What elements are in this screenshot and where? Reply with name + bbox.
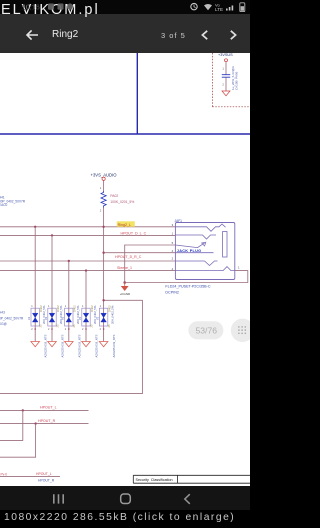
svg-text:+KGND: +KGND bbox=[120, 292, 131, 296]
svg-text:PA02: PA02 bbox=[110, 194, 118, 198]
ground KGND arrow bbox=[122, 283, 128, 291]
back icon bbox=[185, 494, 190, 504]
toolbar title bbox=[52, 29, 78, 40]
resistor PA02 zigzag bbox=[101, 191, 106, 208]
TVS diode DZ3 bbox=[61, 305, 82, 358]
home icon bbox=[121, 494, 131, 504]
jack sleeve barrel bbox=[223, 232, 227, 258]
capacitor PA06 plates bbox=[222, 75, 230, 78]
wire bbox=[225, 62, 227, 74]
TVS diode DZ1 bbox=[27, 305, 48, 358]
wire diode4 drop bbox=[85, 271, 87, 309]
svg-text:+3VS_AUDIO: +3VS_AUDIO bbox=[91, 172, 118, 177]
wire net HPOUT_D_L_C bbox=[0, 234, 175, 236]
wire ring2 stub to jack pin4 bbox=[104, 252, 176, 254]
page number pill bbox=[188, 321, 223, 339]
svg-text:HPOUT_L: HPOUT_L bbox=[40, 406, 57, 410]
svg-text:100K_0201_5%: 100K_0201_5% bbox=[110, 200, 134, 204]
jack pin1 contact bbox=[175, 235, 216, 239]
nav bar icons bbox=[0, 486, 250, 510]
svg-text:Sleeve_1: Sleeve_1 bbox=[117, 266, 132, 270]
power node circle bbox=[102, 177, 105, 180]
dashed hierarchy box bbox=[212, 53, 250, 107]
battery icon bbox=[240, 3, 245, 12]
bottom edge wire bbox=[0, 476, 60, 478]
junction bbox=[34, 422, 36, 424]
wire jack pin5 to KGND rail bbox=[125, 245, 176, 283]
jack JAF1 body bbox=[175, 223, 234, 280]
schematic page bbox=[0, 53, 250, 486]
svg-text:8P_0402_50V7R: 8P_0402_50V7R bbox=[0, 317, 24, 321]
junction bbox=[34, 226, 36, 228]
junction bbox=[22, 409, 24, 411]
junction bbox=[102, 252, 104, 254]
nav bar background bbox=[0, 486, 250, 510]
wire net HPOUT_R bbox=[0, 423, 89, 425]
jack tip arrow bbox=[202, 242, 206, 246]
status bar background bbox=[0, 0, 250, 14]
svg-text:HPOUT_D_R_C: HPOUT_D_R_C bbox=[115, 255, 142, 259]
watermark bbox=[1, 2, 100, 18]
notification icons bbox=[48, 4, 54, 10]
junction bbox=[68, 260, 70, 262]
blue sheet vertical line bbox=[136, 53, 138, 134]
wire net HPOUT_L bbox=[0, 409, 89, 411]
wire bbox=[225, 77, 227, 91]
svg-text:10:16: 10:16 bbox=[22, 3, 40, 12]
svg-text:Pv-0: Pv-0 bbox=[1, 473, 8, 477]
svg-text:HPOUT_R: HPOUT_R bbox=[38, 479, 55, 483]
jack pin sleeve contact bbox=[175, 267, 234, 271]
svg-text:Ring2_L: Ring2_L bbox=[118, 223, 131, 227]
wire diode1 drop bbox=[34, 227, 36, 308]
TVS diode DZ4 bbox=[78, 305, 99, 358]
left clipped capacitor label lower bbox=[0, 310, 24, 325]
junction bbox=[102, 299, 104, 301]
wire diode2 drop bbox=[51, 235, 53, 308]
status content over watermark bbox=[0, 0, 250, 14]
net label Ring2_L bbox=[117, 221, 135, 227]
blue sheet horizontal line bbox=[0, 133, 250, 135]
svg-text:HPOUT_R: HPOUT_R bbox=[38, 419, 56, 423]
wire KGND rail to jack sleeve pin bbox=[125, 271, 248, 283]
wire net Ring2_L bbox=[0, 226, 175, 228]
svg-text:DCPIN2: DCPIN2 bbox=[165, 290, 179, 294]
svg-text:KG@: KG@ bbox=[0, 322, 7, 326]
svg-text:53/76: 53/76 bbox=[196, 325, 218, 335]
jack pin3 contact bbox=[175, 224, 225, 231]
recents icon bbox=[54, 494, 63, 503]
page background bbox=[0, 53, 250, 486]
svg-text:HPOUT_L: HPOUT_L bbox=[36, 472, 52, 476]
notification icon overlays bbox=[48, 4, 54, 10]
junction bbox=[102, 226, 104, 228]
toolbar background bbox=[0, 14, 250, 53]
wire HPOUT_L hook bbox=[0, 410, 23, 440]
wire net HPOUT_D_R_C bbox=[0, 260, 175, 262]
page chevron right bbox=[231, 31, 236, 39]
status bar contents bbox=[0, 0, 250, 14]
alarm icon bbox=[191, 3, 197, 9]
svg-text:JACK PLUG: JACK PLUG bbox=[177, 249, 202, 253]
svg-text:+3VSUS: +3VSUS bbox=[218, 53, 233, 57]
back arrow bbox=[27, 30, 38, 39]
wire resistor down to diode5 bbox=[103, 208, 105, 309]
junction bbox=[85, 269, 87, 271]
svg-text:CA10B PA06: CA10B PA06 bbox=[235, 71, 239, 90]
left clipped capacitor label bbox=[0, 195, 26, 207]
page chevron left bbox=[202, 31, 207, 39]
TVS diode DZ5 bbox=[95, 305, 116, 358]
jack pin4 plain contact bbox=[175, 252, 213, 254]
ground KGND junction bbox=[123, 281, 126, 284]
junction bbox=[51, 234, 53, 236]
wire HPOUT_R hook bbox=[0, 424, 36, 458]
TVS diode DZ2 bbox=[44, 305, 65, 358]
wire ring2 to bottom left bbox=[0, 300, 142, 393]
svg-text:EAC0: EAC0 bbox=[0, 203, 8, 207]
signal bars bbox=[226, 6, 233, 11]
ground AGND bbox=[222, 91, 230, 96]
page counter bbox=[161, 31, 186, 40]
caption bar bbox=[0, 510, 250, 528]
caption text bbox=[4, 512, 235, 523]
wire diode3 drop bbox=[68, 261, 70, 308]
svg-text:H43: H43 bbox=[0, 310, 5, 314]
jack pin5 tip contact bbox=[175, 243, 204, 248]
drag handle button bbox=[231, 319, 254, 342]
power node circle bbox=[225, 59, 228, 62]
svg-text:HPOUT_D_L_C: HPOUT_D_L_C bbox=[121, 232, 147, 236]
toolbar contents bbox=[0, 14, 250, 53]
wire bbox=[103, 181, 105, 192]
wifi icon bbox=[204, 4, 212, 10]
wire net Sleeve_1 bbox=[0, 270, 175, 272]
svg-text:FLD24_PUSET-P2C/35B-C: FLD24_PUSET-P2C/35B-C bbox=[165, 284, 210, 288]
title block security classification bbox=[133, 475, 250, 483]
jack pin2 contact bbox=[175, 261, 217, 266]
svg-text:Security Classification: Security Classification bbox=[136, 478, 173, 482]
